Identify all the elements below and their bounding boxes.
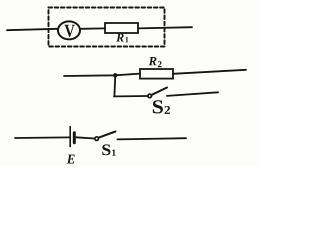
wire middle main left — [64, 74, 140, 76]
switch S2 arm — [152, 88, 167, 95]
wire top-left lead — [7, 29, 57, 30]
wire lower branch to switch S2 — [114, 95, 148, 97]
wire V to R1 — [81, 27, 105, 29]
battery E label — [67, 155, 75, 164]
resistor R2 value label — [149, 57, 157, 65]
switch S1 pivot circle — [95, 137, 99, 141]
voltmeter label V — [65, 25, 75, 37]
wire S2 right lead — [167, 92, 218, 96]
switch S1 label — [102, 144, 110, 155]
battery E long plate — [69, 127, 71, 147]
dashed box (dotted outline around V and R1) — [49, 8, 165, 47]
wire top-right lead — [138, 27, 192, 28]
wire battery to S1 — [76, 137, 95, 138]
resistor R1 value label — [116, 34, 124, 42]
wire vertical drop from junction — [113, 75, 116, 96]
voltmeter U1 ellipse — [58, 21, 80, 39]
resistor R2 body — [140, 69, 173, 79]
node junction dot — [113, 73, 117, 77]
switch S2 label — [153, 100, 163, 113]
switch S2 pivot circle — [148, 94, 152, 98]
wire middle main right — [173, 70, 246, 74]
wire S1 right lead — [117, 138, 186, 139]
switch S1 arm — [99, 132, 116, 138]
wire bottom-left lead — [15, 136, 69, 139]
battery E short thick plate — [73, 133, 76, 143]
resistor R1 body — [105, 23, 138, 33]
